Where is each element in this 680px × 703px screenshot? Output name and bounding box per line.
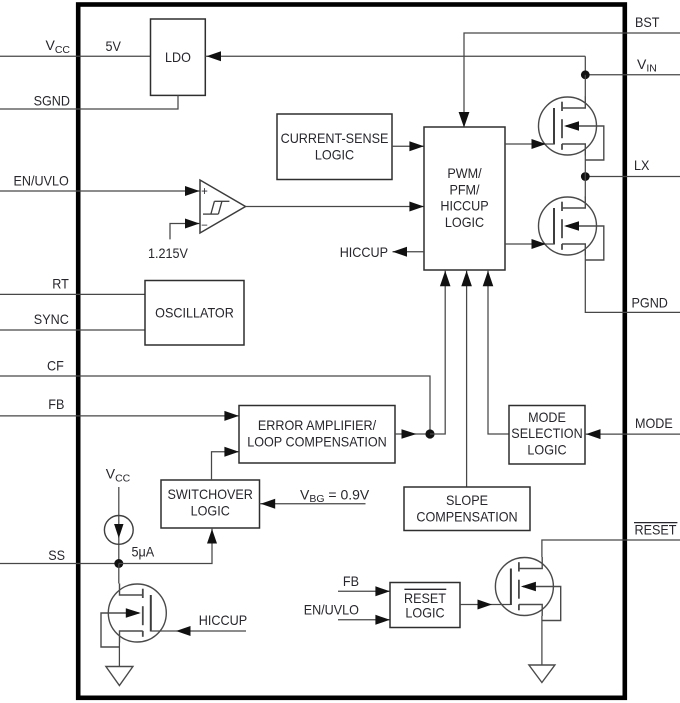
wire Q4 drain to RESET pin xyxy=(542,540,680,557)
wire Q1 source to LX node xyxy=(584,156,586,177)
arrow HICCUP pointing left xyxy=(393,247,408,257)
wire current-sense to PWM xyxy=(392,145,424,147)
svg-text:EN/UVLO: EN/UVLO xyxy=(304,601,359,617)
error amplifier box xyxy=(239,406,395,464)
low-side MOSFET Q2 xyxy=(539,197,597,255)
svg-text:CURRENT-SENSE: CURRENT-SENSE xyxy=(281,130,389,146)
wire CF xyxy=(0,376,430,434)
reset logic label RESET overline xyxy=(404,588,446,590)
arrow HICCUP into Q3 gate xyxy=(176,626,191,636)
svg-text:RESET: RESET xyxy=(635,522,677,538)
wire RT to oscillator xyxy=(0,293,145,295)
hiccup discharge MOSFET Q3 xyxy=(108,584,166,642)
arrow riser-1 into PWM bottom xyxy=(440,271,451,287)
svg-text:PFM/: PFM/ xyxy=(449,181,479,197)
LDO U1 box xyxy=(151,19,206,95)
arrow VBG into switchover xyxy=(261,499,276,509)
wire HICCUP out of PWM xyxy=(393,251,425,253)
wire SS pin xyxy=(0,563,119,565)
arrow MODE into box xyxy=(586,429,601,439)
arrow into comparator minus xyxy=(185,219,200,229)
outer border frame xyxy=(78,5,625,698)
svg-text:PGND: PGND xyxy=(632,295,668,311)
reset logic box xyxy=(390,583,460,628)
svg-text:5μA: 5μA xyxy=(132,544,155,560)
comparator U2 triangle xyxy=(200,180,246,233)
wire SYNC to oscillator xyxy=(0,329,145,331)
wire SS node to Q3 drain xyxy=(118,564,120,584)
svg-text:SYNC: SYNC xyxy=(34,311,69,327)
svg-text:PWM/: PWM/ xyxy=(447,165,481,181)
oscillator box xyxy=(145,281,244,346)
svg-text:SGND: SGND xyxy=(34,92,70,108)
wire PWM to Q2 gate xyxy=(505,243,554,245)
comparator hysteresis glyph xyxy=(203,213,218,215)
arrow on error amp output xyxy=(402,429,417,439)
wire VIN node to high FET drain xyxy=(584,75,586,97)
svg-text:HICCUP: HICCUP xyxy=(340,244,388,260)
wire FB to reset logic xyxy=(338,590,390,592)
svg-text:LOGIC: LOGIC xyxy=(527,441,566,457)
svg-text:CF: CF xyxy=(47,357,64,373)
arrow EN/UVLO into reset logic xyxy=(375,615,390,625)
wire Q3 source to ground xyxy=(118,643,120,667)
wire BST xyxy=(464,33,680,127)
arrow current-sense into PWM xyxy=(409,141,424,151)
wire MODE pin xyxy=(585,433,680,435)
svg-text:BST: BST xyxy=(635,14,660,30)
wire LX pin xyxy=(585,176,680,178)
wire slope comp riser xyxy=(466,270,468,487)
svg-text:LDO: LDO xyxy=(165,49,191,65)
wire SS node to switchover xyxy=(119,528,212,564)
svg-text:HICCUP: HICCUP xyxy=(199,612,247,628)
wire reset logic to Q4 gate xyxy=(460,604,511,606)
svg-text:RT: RT xyxy=(52,276,69,292)
wire HICCUP to Q3 gate xyxy=(151,630,246,632)
node error amp output dot xyxy=(425,429,434,438)
svg-text:MODE: MODE xyxy=(528,409,566,425)
wire EN/UVLO to reset logic xyxy=(338,619,390,621)
svg-text:+: + xyxy=(201,186,208,198)
arrow into switchover bottom xyxy=(207,529,217,544)
wire VBG into switchover xyxy=(260,503,366,505)
wire 1.215V to comparator minus xyxy=(170,224,200,240)
current source I1 circle xyxy=(104,516,133,545)
svg-text:LOOP COMPENSATION: LOOP COMPENSATION xyxy=(247,434,387,450)
arrow into LDO xyxy=(207,51,222,61)
svg-text:EN/UVLO: EN/UVLO xyxy=(14,172,69,188)
svg-text:ERROR AMPLIFIER/: ERROR AMPLIFIER/ xyxy=(258,417,376,433)
reset output MOSFET Q4 xyxy=(495,558,553,616)
wire PWM to Q1 gate xyxy=(505,143,554,145)
arrow riser-3 into PWM bottom xyxy=(483,271,494,287)
wire VIN pin xyxy=(585,74,680,76)
svg-text:COMPENSATION: COMPENSATION xyxy=(416,508,517,524)
arrow BST into PWM top xyxy=(459,112,470,128)
svg-text:LOGIC: LOGIC xyxy=(445,214,484,230)
arrow on Q2 gate wire xyxy=(532,239,547,249)
current source arrow xyxy=(114,524,123,538)
RESET pin overline xyxy=(634,522,677,524)
arrow switchover into error amp xyxy=(224,447,239,457)
node LX junction dot xyxy=(581,172,590,181)
wire mode selection riser xyxy=(488,270,509,434)
arrow on Q1 gate wire xyxy=(532,139,547,149)
svg-text:LOGIC: LOGIC xyxy=(191,502,230,518)
svg-text:LOGIC: LOGIC xyxy=(405,605,444,621)
current-sense logic box xyxy=(277,114,392,180)
svg-text:LOGIC: LOGIC xyxy=(315,147,354,163)
svg-text:HICCUP: HICCUP xyxy=(440,198,488,214)
svg-text:SELECTION: SELECTION xyxy=(511,425,582,441)
wire SGND pin xyxy=(0,95,178,109)
wire LDO input from VIN node xyxy=(205,55,585,57)
mode selection logic box xyxy=(509,406,585,465)
arrow riser-2 into PWM bottom xyxy=(461,271,472,287)
wire switchover to error amp xyxy=(212,452,239,480)
wire VCC to current source xyxy=(118,487,120,564)
ground symbol below Q4 xyxy=(529,665,555,683)
svg-text:SWITCHOVER: SWITCHOVER xyxy=(168,486,253,502)
arrow comparator out into PWM xyxy=(409,202,424,212)
wire VIN node up to LDO line xyxy=(584,56,586,75)
switchover logic box xyxy=(161,480,260,528)
svg-text:FB: FB xyxy=(48,396,64,412)
wire Q4 source to ground xyxy=(541,616,543,665)
ground symbol below Q3 xyxy=(106,667,133,686)
svg-text:RESET: RESET xyxy=(404,590,446,606)
slope compensation box xyxy=(404,487,530,531)
wire node to PWM riser xyxy=(430,270,445,434)
svg-text:SLOPE: SLOPE xyxy=(446,492,488,508)
svg-text:1.215V: 1.215V xyxy=(148,245,188,261)
svg-text:FB: FB xyxy=(343,573,359,589)
wire VCC pin to LDO xyxy=(0,55,151,57)
node SS junction dot xyxy=(114,559,123,568)
arrow into comparator plus xyxy=(185,186,200,196)
PWM PFM HICCUP logic box xyxy=(424,127,505,270)
svg-text:LX: LX xyxy=(634,157,650,173)
wire comparator output to PWM xyxy=(246,206,424,208)
wire EN/UVLO to comparator plus xyxy=(0,190,200,192)
wire LX node to Q2 drain xyxy=(584,177,586,198)
arrow on reset gate wire xyxy=(478,600,493,610)
arrow FB into error amplifier xyxy=(224,411,239,421)
svg-text:5V: 5V xyxy=(106,38,122,54)
node VIN junction dot xyxy=(581,70,590,79)
wire error amp output xyxy=(395,433,430,435)
high-side MOSFET Q1 xyxy=(539,97,597,155)
svg-text:OSCILLATOR: OSCILLATOR xyxy=(155,304,234,320)
svg-text:SS: SS xyxy=(48,547,65,563)
arrow FB into reset logic xyxy=(375,586,390,596)
svg-text:MODE: MODE xyxy=(635,415,673,431)
wire FB to error amplifier xyxy=(0,415,239,417)
wire Q2 source to PGND xyxy=(585,256,680,313)
svg-text:−: − xyxy=(201,220,208,232)
